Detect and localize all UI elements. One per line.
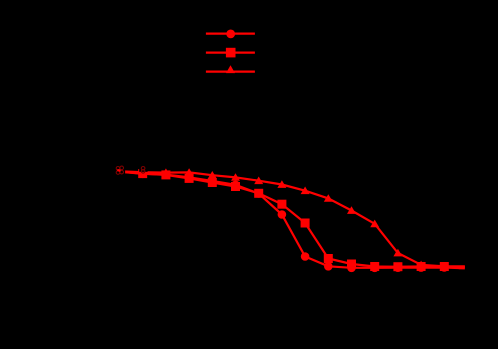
legend entry 3: triangle series sample line (206, 65, 255, 73)
square series markers (138, 169, 449, 271)
second data point dim open-marker remnant (139, 166, 147, 173)
circle series markers (138, 170, 448, 273)
legend entry 2: square series sample line (206, 48, 255, 58)
circle series line (120, 172, 468, 268)
square series line (120, 172, 468, 267)
triangle series line (120, 171, 468, 266)
legend entry 1: circle series sample line (206, 30, 255, 39)
triangle series markers (161, 168, 448, 270)
end-of-line cluster at right plot edge (459, 266, 465, 270)
first data point cluster: dim overlapped open markers (115, 164, 126, 178)
